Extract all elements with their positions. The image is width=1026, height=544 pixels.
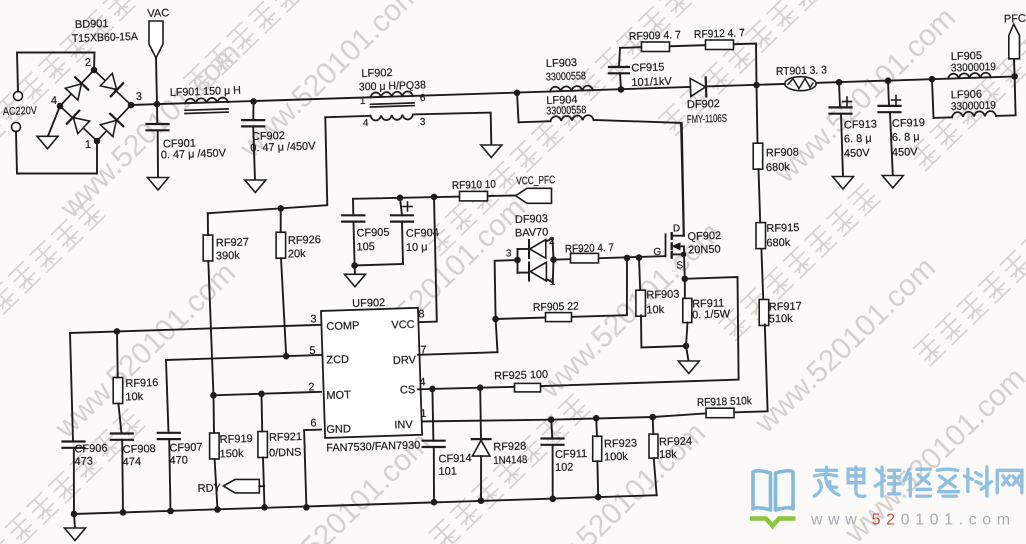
svg-text:RF928: RF928 [493,440,526,453]
svg-text:6. 8 μ: 6. 8 μ [844,133,872,146]
svg-text:AC220V: AC220V [3,105,38,118]
svg-text:RF917: RF917 [769,300,802,313]
svg-text:RF912 4. 7: RF912 4. 7 [694,27,745,41]
svg-text:CF905: CF905 [356,227,389,240]
svg-text:CS: CS [400,384,416,396]
svg-text:RF925 100: RF925 100 [494,369,548,383]
svg-text:BD901: BD901 [75,18,109,31]
svg-text:RF903: RF903 [646,288,679,301]
svg-text:CF907: CF907 [169,441,202,454]
svg-text:RF918 510k: RF918 510k [697,395,753,409]
svg-text:VCC: VCC [391,319,415,332]
svg-text:RF910 10: RF910 10 [452,179,496,192]
svg-text:RF927: RF927 [216,236,249,249]
svg-text:3: 3 [136,91,143,103]
svg-text:CF911: CF911 [555,448,588,461]
svg-text:T15XB60-15A: T15XB60-15A [72,31,139,45]
svg-text:BAV70: BAV70 [515,226,549,239]
svg-text:390k: 390k [216,250,241,263]
svg-text:33000558: 33000558 [546,104,586,117]
svg-text:S: S [676,260,683,271]
svg-text:470: 470 [169,454,188,467]
svg-text:101: 101 [438,465,457,478]
svg-text:COMP: COMP [326,320,359,333]
svg-text:20k: 20k [288,248,307,261]
svg-text:10k: 10k [125,391,144,404]
svg-text:33000019: 33000019 [951,61,996,74]
svg-text:101/1kV: 101/1kV [631,76,672,89]
svg-text:RF908: RF908 [766,146,799,159]
svg-text:VAC: VAC [147,7,169,20]
svg-text:1: 1 [360,96,366,107]
svg-text:RF916: RF916 [125,377,158,390]
svg-text:VCC_PFC: VCC_PFC [516,174,555,187]
svg-text:RF919: RF919 [220,433,253,446]
svg-text:CF906: CF906 [74,442,107,455]
svg-text:0/DNS: 0/DNS [269,446,302,459]
svg-text:4: 4 [51,95,58,107]
svg-text:5: 5 [309,345,316,357]
svg-text:RF924: RF924 [659,435,692,448]
svg-text:3: 3 [420,117,426,128]
svg-text:LF902: LF902 [361,67,393,80]
svg-text:RF926: RF926 [288,234,321,247]
svg-text:4: 4 [363,118,369,129]
svg-text:PFC: PFC [1004,13,1026,26]
svg-text:4: 4 [419,376,426,388]
svg-text:6. 8 μ: 6. 8 μ [892,131,920,144]
svg-text:300 μ H/PQ38: 300 μ H/PQ38 [359,79,426,93]
svg-text:RT901 3. 3: RT901 3. 3 [776,64,827,78]
svg-text:DRV: DRV [393,354,417,367]
svg-text:2: 2 [549,236,555,247]
svg-text:105: 105 [356,241,375,254]
svg-text:680k: 680k [766,161,791,174]
svg-text:1N4148: 1N4148 [493,454,527,467]
svg-text:0. 47 μ /450V: 0. 47 μ /450V [161,147,227,161]
svg-text:8: 8 [418,308,425,320]
svg-text:RF905 22: RF905 22 [533,301,579,314]
svg-text:RF923: RF923 [604,437,637,450]
svg-text:www.520101.com: www.520101.com [810,512,1016,529]
svg-text:DF902: DF902 [687,98,720,111]
svg-text:RDY: RDY [198,482,222,495]
svg-text:2: 2 [308,381,315,393]
svg-text:680k: 680k [766,237,791,250]
svg-text:RF921: RF921 [269,431,302,444]
svg-text:450V: 450V [892,146,919,159]
svg-text:FMY-1106S: FMY-1106S [687,113,727,126]
svg-text:33000019: 33000019 [951,100,996,113]
svg-text:3: 3 [310,313,317,325]
svg-text:100k: 100k [604,451,629,464]
svg-text:RF909 4. 7: RF909 4. 7 [629,29,681,43]
svg-text:6: 6 [420,93,426,104]
svg-text:DF903: DF903 [515,213,548,226]
svg-text:2: 2 [85,57,92,69]
svg-text:RF915: RF915 [766,222,799,235]
svg-text:1: 1 [420,408,427,420]
svg-text:G: G [653,247,661,258]
svg-text:LF901 150 μ H: LF901 150 μ H [170,85,241,99]
svg-text:CF915: CF915 [631,61,664,74]
svg-text:RF920 4. 7: RF920 4. 7 [565,242,614,256]
svg-text:1: 1 [85,139,92,151]
svg-text:GND: GND [326,423,351,436]
svg-text:0. 1/5W: 0. 1/5W [692,308,731,321]
svg-text:INV: INV [394,419,413,432]
svg-text:150k: 150k [220,448,245,461]
svg-text:33000558: 33000558 [546,70,586,83]
svg-text:CF908: CF908 [123,443,156,456]
svg-text:CF913: CF913 [844,118,877,131]
svg-text:102: 102 [555,461,574,474]
svg-text:UF902: UF902 [352,297,385,310]
svg-text:6: 6 [310,417,317,429]
svg-text:0. 47 μ /450V: 0. 47 μ /450V [250,140,316,154]
svg-text:473: 473 [74,455,93,468]
svg-text:ZCD: ZCD [326,354,349,367]
svg-text:510k: 510k [769,313,794,326]
svg-text:18k: 18k [659,448,678,461]
svg-text:20N50: 20N50 [688,243,721,256]
svg-text:LF903: LF903 [546,57,578,70]
svg-text:1: 1 [549,277,555,288]
svg-text:3: 3 [506,248,512,259]
svg-text:D: D [673,223,681,234]
svg-text:474: 474 [123,456,142,469]
svg-text:CF919: CF919 [892,117,925,130]
svg-text:QF902: QF902 [687,230,721,243]
svg-text:10k: 10k [646,304,665,317]
svg-text:CF914: CF914 [438,452,471,465]
svg-text:450V: 450V [844,147,871,160]
svg-text:MOT: MOT [326,389,351,402]
svg-text:10 μ: 10 μ [406,241,428,254]
